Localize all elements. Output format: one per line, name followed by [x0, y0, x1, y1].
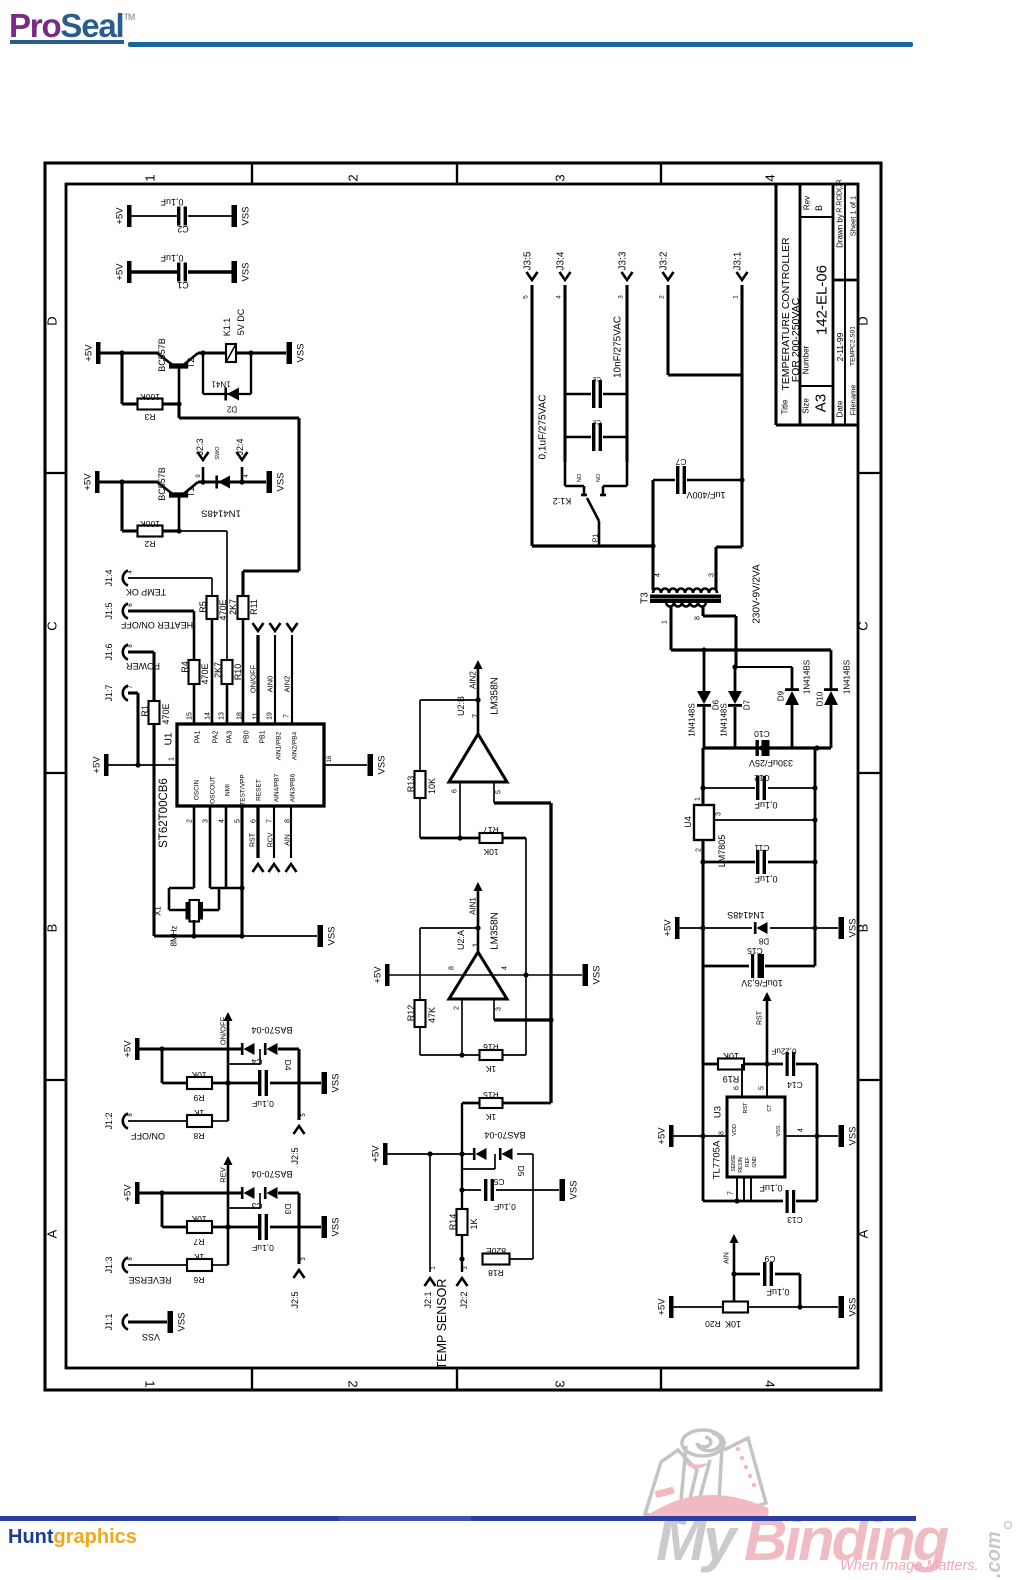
svg-text:.com: .com [983, 1531, 1005, 1578]
svg-text:When Image Matters.: When Image Matters. [840, 1558, 979, 1574]
